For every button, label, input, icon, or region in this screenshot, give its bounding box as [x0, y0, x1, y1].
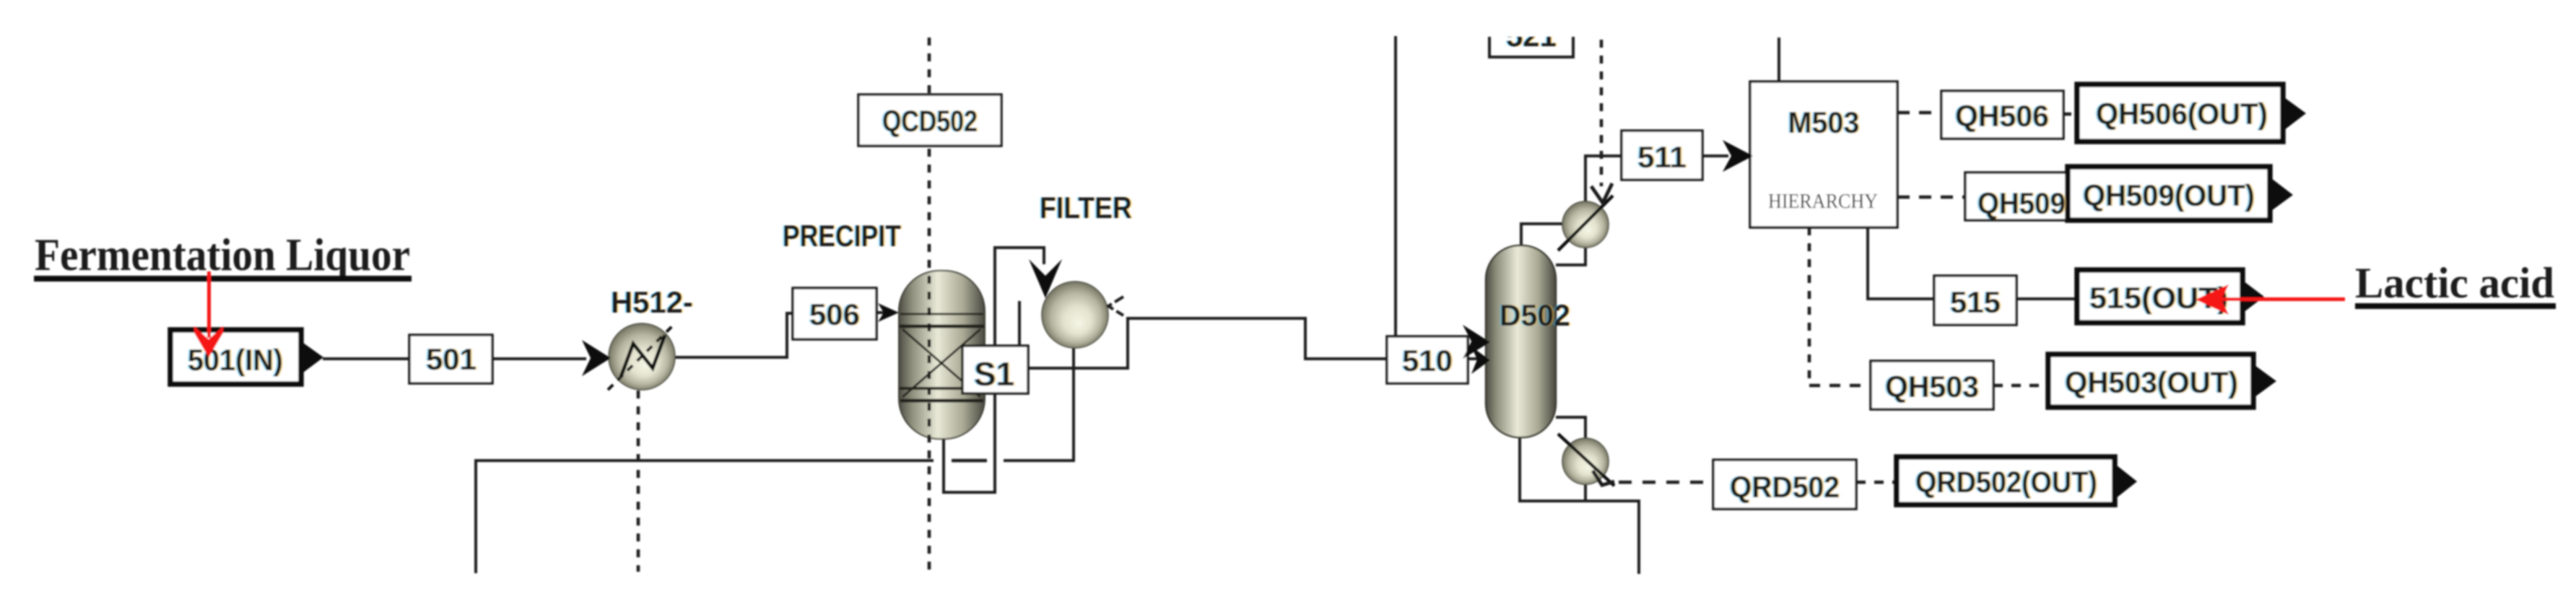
svg-text:501(IN): 501(IN) — [188, 343, 283, 377]
svg-text:PRECIPIT: PRECIPIT — [783, 219, 901, 253]
svg-text:QCD502: QCD502 — [882, 104, 978, 138]
svg-text:H512-: H512- — [611, 285, 693, 319]
svg-text:Lactic acid: Lactic acid — [2355, 259, 2554, 307]
svg-text:510: 510 — [1402, 344, 1453, 378]
svg-text:HIERARCHY: HIERARCHY — [1768, 190, 1878, 213]
svg-text:Fermentation Liquor: Fermentation Liquor — [35, 229, 410, 280]
svg-text:S1: S1 — [974, 355, 1014, 393]
svg-text:QH506: QH506 — [1955, 99, 2049, 133]
svg-text:M503: M503 — [1788, 105, 1860, 139]
svg-text:QH503(OUT): QH503(OUT) — [2065, 365, 2238, 399]
svg-text:QRD502: QRD502 — [1730, 470, 1840, 504]
svg-text:QRD502(OUT): QRD502(OUT) — [1915, 465, 2097, 499]
svg-text:501: 501 — [426, 342, 477, 376]
svg-text:QH509: QH509 — [1977, 186, 2066, 220]
svg-text:506: 506 — [809, 297, 860, 331]
svg-text:521: 521 — [1506, 19, 1557, 53]
svg-text:511: 511 — [1637, 140, 1687, 174]
svg-text:QH509(OUT): QH509(OUT) — [2083, 178, 2255, 212]
svg-text:QH506(OUT): QH506(OUT) — [2096, 97, 2268, 131]
svg-text:515: 515 — [1950, 285, 2001, 319]
svg-text:FILTER: FILTER — [1040, 191, 1132, 225]
svg-text:D502: D502 — [1500, 298, 1570, 332]
svg-text:QH503: QH503 — [1885, 370, 1979, 404]
